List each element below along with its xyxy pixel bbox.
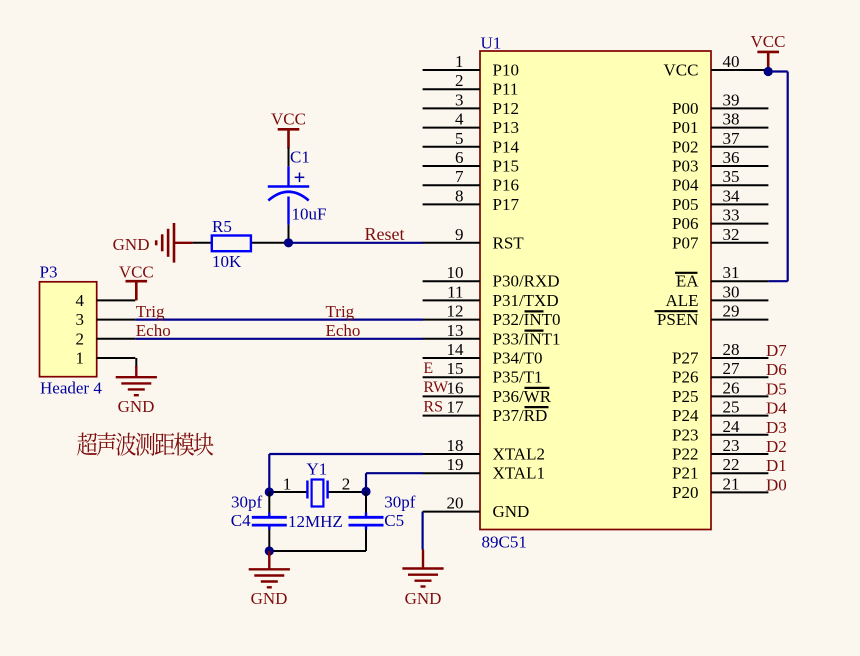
svg-text:D4: D4	[766, 399, 787, 418]
svg-text:Echo: Echo	[136, 321, 171, 340]
svg-text:8: 8	[455, 186, 464, 205]
U1 pin 20 (GND)	[423, 494, 530, 521]
U1 pin 29 (PSEN)	[657, 302, 768, 330]
crystal Y1 12MHZ	[269, 460, 366, 532]
svg-text:18: 18	[447, 436, 464, 455]
svg-text:ALE: ALE	[665, 291, 698, 310]
wire crystal ground rail	[269, 550, 366, 552]
wire P3 pin1 down	[135, 358, 137, 368]
svg-text:GND: GND	[493, 502, 530, 521]
svg-text:1: 1	[283, 475, 292, 494]
svg-text:12MHZ: 12MHZ	[288, 512, 343, 531]
svg-text:16: 16	[447, 378, 464, 397]
svg-text:P07: P07	[672, 233, 699, 252]
U1 pin 1 (P10)	[423, 52, 519, 80]
svg-text:P02: P02	[672, 137, 698, 156]
ground GND (power-bar symbol at R5)	[113, 223, 193, 263]
power VCC (at pin 40)	[751, 32, 786, 72]
svg-text:17: 17	[447, 398, 465, 417]
svg-text:P36/WR: P36/WR	[493, 387, 552, 406]
svg-text:U1: U1	[481, 34, 502, 53]
node junction pin40/VCC	[764, 67, 773, 76]
svg-text:P12: P12	[493, 99, 519, 118]
node junction R5/C1/Reset	[284, 238, 293, 247]
svg-text:P01: P01	[672, 118, 698, 137]
svg-text:GND: GND	[118, 397, 155, 416]
U1 pin 21 (P20)	[672, 474, 768, 502]
svg-text:P15: P15	[493, 157, 519, 176]
svg-text:P03: P03	[672, 157, 698, 176]
U1 pin 9 (RST)	[423, 225, 525, 253]
svg-text:38: 38	[723, 110, 740, 129]
svg-text:14: 14	[447, 340, 465, 359]
U1 pin 8 (P17)	[423, 186, 520, 214]
U1 pin 11 (P31/TXD)	[423, 282, 559, 310]
svg-text:Y1: Y1	[307, 460, 328, 479]
svg-text:2: 2	[76, 329, 85, 348]
svg-text:Trig: Trig	[326, 302, 355, 321]
svg-text:4: 4	[455, 110, 464, 129]
capacitor C1 10uF (polarized)	[268, 148, 327, 225]
wire VCC to EA pin 31	[768, 72, 788, 282]
ground GND (below crystal, earth symbol)	[249, 551, 290, 608]
U1 pin 14 (P34/T0)	[423, 340, 543, 368]
svg-text:28: 28	[723, 340, 740, 359]
svg-text:10K: 10K	[212, 252, 242, 271]
svg-text:23: 23	[723, 436, 740, 455]
U1 pin 19 (XTAL1)	[423, 455, 545, 483]
svg-text:32: 32	[723, 225, 740, 244]
U1 pin 4 (P13)	[423, 110, 519, 138]
U1 pin 30 (ALE)	[665, 282, 768, 310]
svg-text:RW: RW	[423, 379, 449, 396]
svg-text:P06: P06	[672, 214, 698, 233]
svg-text:12: 12	[447, 302, 464, 321]
U1 pin 32 (P07)	[672, 225, 768, 253]
svg-text:P33/INT1: P33/INT1	[493, 329, 561, 348]
svg-text:P3: P3	[40, 263, 58, 282]
overline bar EA (pin 31 label)	[675, 272, 698, 274]
svg-text:P34/T0: P34/T0	[493, 349, 543, 368]
svg-text:34: 34	[723, 186, 741, 205]
U1 pin 5 (P14)	[423, 129, 520, 157]
svg-text:29: 29	[723, 302, 740, 321]
svg-text:6: 6	[455, 148, 464, 167]
power VCC (above C1)	[271, 109, 306, 148]
node junction XTAL1/Y1/C5	[361, 487, 370, 496]
svg-text:40: 40	[723, 52, 740, 71]
U1 pin 24 (P23)	[672, 417, 768, 445]
U1 pin 25 (P24)	[672, 398, 768, 426]
svg-text:P37/RD: P37/RD	[493, 406, 548, 425]
svg-text:GND: GND	[251, 589, 288, 608]
svg-text:13: 13	[447, 321, 464, 340]
U1 pin 37 (P02)	[672, 129, 768, 157]
svg-text:D3: D3	[766, 418, 787, 437]
svg-text:P17: P17	[493, 195, 520, 214]
svg-text:D6: D6	[766, 360, 787, 379]
svg-text:D7: D7	[766, 341, 787, 360]
svg-text:P24: P24	[672, 406, 699, 425]
U1 pin 2 (P11)	[423, 71, 519, 99]
svg-text:1: 1	[76, 349, 85, 368]
U1 pin 16 (P36/WR)	[423, 378, 552, 406]
svg-text:P27: P27	[672, 349, 699, 368]
svg-text:GND: GND	[405, 589, 442, 608]
svg-text:P25: P25	[672, 387, 698, 406]
svg-text:PSEN: PSEN	[657, 310, 699, 329]
svg-text:2: 2	[455, 71, 464, 90]
svg-text:RS: RS	[423, 398, 443, 415]
svg-text:33: 33	[723, 206, 740, 225]
wire VCC to C1	[288, 148, 290, 167]
U1 pin 33 (P06)	[672, 206, 768, 234]
U1 pin 3 (P12)	[423, 90, 519, 118]
svg-text:1: 1	[455, 52, 464, 71]
svg-text:P00: P00	[672, 99, 698, 118]
svg-text:D2: D2	[766, 437, 787, 456]
svg-text:31: 31	[723, 263, 740, 282]
overline bar PSEN (pin 29 label)	[655, 310, 698, 312]
U1 pin 17 (P37/RD)	[423, 398, 548, 426]
svg-text:19: 19	[447, 455, 464, 474]
svg-text:P05: P05	[672, 195, 698, 214]
svg-text:P11: P11	[493, 80, 519, 99]
capacitor C4 30pf	[231, 492, 287, 551]
svg-text:C1: C1	[290, 148, 310, 167]
svg-text:D5: D5	[766, 379, 787, 398]
svg-text:11: 11	[447, 282, 463, 301]
node junction XTAL2/Y1/C4	[265, 487, 274, 496]
node junction C4/ground rail	[265, 546, 274, 555]
svg-text:15: 15	[447, 359, 464, 378]
svg-text:22: 22	[723, 455, 740, 474]
U1 pin 7 (P16)	[423, 167, 519, 195]
svg-text:GND: GND	[113, 235, 150, 254]
svg-text:XTAL2: XTAL2	[493, 445, 545, 464]
U1 pin 36 (P03)	[672, 148, 768, 176]
svg-text:3: 3	[455, 90, 464, 109]
U1 pin 15 (P35/T1)	[423, 359, 543, 387]
resistor R5 10K	[193, 217, 289, 271]
svg-text:EA: EA	[676, 272, 699, 291]
P3 pin 4	[76, 291, 136, 310]
svg-text:VCC: VCC	[271, 109, 306, 128]
svg-text:C5: C5	[384, 511, 404, 530]
U1 pin 22 (P21)	[672, 455, 768, 483]
svg-text:P04: P04	[672, 176, 699, 195]
P3 pin 2	[76, 329, 136, 348]
svg-text:7: 7	[455, 167, 464, 186]
svg-text:35: 35	[723, 167, 740, 186]
P3 pin 1	[76, 349, 136, 368]
svg-text:30pf: 30pf	[384, 493, 416, 512]
svg-text:30: 30	[723, 282, 740, 301]
wire Reset net to pin 9	[289, 242, 424, 244]
svg-text:P20: P20	[672, 483, 698, 502]
svg-text:C4: C4	[231, 511, 251, 530]
connector P3 Header 4 body	[40, 263, 103, 398]
ground GND (below P3, earth symbol)	[116, 366, 157, 416]
svg-text:D1: D1	[766, 456, 787, 475]
wire Trig net P3 to pin 12	[135, 319, 423, 321]
P3 pin 3	[76, 310, 136, 329]
U1 pin 12 (P32/INT0)	[423, 302, 561, 330]
svg-text:VCC: VCC	[119, 262, 154, 281]
U1 pin 10 (P30/RXD)	[423, 263, 560, 291]
svg-text:5: 5	[455, 129, 464, 148]
svg-text:Header 4: Header 4	[40, 379, 102, 398]
U1 pin 40 (VCC)	[664, 52, 769, 80]
U1 pin 31 (EA)	[676, 263, 769, 291]
svg-text:XTAL1: XTAL1	[493, 464, 545, 483]
svg-text:Echo: Echo	[326, 321, 361, 340]
svg-text:P13: P13	[493, 118, 519, 137]
svg-text:26: 26	[723, 378, 740, 397]
svg-text:25: 25	[723, 398, 740, 417]
svg-text:RST: RST	[493, 233, 525, 252]
U1 pin 13 (P33/INT1)	[423, 321, 561, 349]
svg-text:4: 4	[76, 291, 85, 310]
svg-text:10uF: 10uF	[292, 205, 327, 224]
svg-text:P14: P14	[493, 137, 520, 156]
svg-text:21: 21	[723, 474, 740, 493]
wire Echo net P3 to pin 13	[135, 338, 423, 340]
svg-text:36: 36	[723, 148, 740, 167]
wire pin 20 to ground	[422, 512, 424, 550]
op-amp U1 89C51 body	[480, 34, 711, 552]
svg-text:Trig: Trig	[136, 302, 165, 321]
U1 pin 28 (P27)	[672, 340, 768, 368]
svg-text:30pf: 30pf	[231, 493, 263, 512]
svg-text:P23: P23	[672, 425, 698, 444]
svg-text:10: 10	[447, 263, 464, 282]
svg-text:24: 24	[723, 417, 741, 436]
svg-text:27: 27	[723, 359, 741, 378]
svg-text:VCC: VCC	[751, 32, 786, 51]
svg-text:P35/T1: P35/T1	[493, 368, 543, 387]
overline bar INT0 (pin 12 label)	[525, 310, 544, 312]
svg-text:39: 39	[723, 90, 740, 109]
U1 pin 38 (P01)	[672, 110, 768, 138]
caption text 超声波测距模块 (drawn glyph paths)	[77, 432, 213, 455]
svg-text:37: 37	[723, 129, 741, 148]
wire XTAL2 pin18 to crystal	[269, 454, 423, 492]
svg-text:P32/INT0: P32/INT0	[493, 310, 561, 329]
U1 pin 34 (P05)	[672, 186, 768, 214]
svg-text:2: 2	[342, 475, 351, 494]
wire C1 to Reset node	[288, 225, 290, 243]
power VCC (at P3 pin 4)	[119, 262, 154, 300]
U1 pin 27 (P26)	[672, 359, 768, 387]
overline bar INT1 (pin 13 label)	[525, 330, 544, 332]
U1 pin 6 (P15)	[423, 148, 519, 176]
svg-text:P10: P10	[493, 61, 519, 80]
svg-text:P30/RXD: P30/RXD	[493, 272, 560, 291]
svg-text:P26: P26	[672, 368, 698, 387]
svg-text:D0: D0	[766, 475, 787, 494]
svg-text:89C51: 89C51	[482, 533, 527, 552]
U1 pin 39 (P00)	[672, 90, 768, 118]
svg-text:P21: P21	[672, 464, 698, 483]
svg-text:Reset: Reset	[365, 224, 405, 244]
svg-text:R5: R5	[212, 217, 232, 236]
U1 pin 26 (P25)	[672, 378, 768, 406]
svg-text:P31/TXD: P31/TXD	[493, 291, 559, 310]
svg-text:P16: P16	[493, 176, 519, 195]
overline bar RD (pin 17 label)	[525, 406, 549, 408]
capacitor C5 30pf	[349, 492, 416, 551]
overline bar WR (pin 16 label)	[525, 387, 550, 389]
wire XTAL1 pin19 to crystal	[366, 473, 423, 492]
U1 pin 23 (P22)	[672, 436, 768, 464]
svg-text:20: 20	[447, 494, 464, 513]
svg-text:P22: P22	[672, 445, 698, 464]
svg-text:E: E	[423, 360, 433, 377]
U1 pin 35 (P04)	[672, 167, 768, 195]
ground GND (below pin 20, earth symbol)	[402, 550, 443, 609]
U1 pin 18 (XTAL2)	[423, 436, 545, 464]
svg-text:VCC: VCC	[664, 61, 699, 80]
svg-text:3: 3	[76, 310, 85, 329]
svg-text:9: 9	[455, 225, 464, 244]
